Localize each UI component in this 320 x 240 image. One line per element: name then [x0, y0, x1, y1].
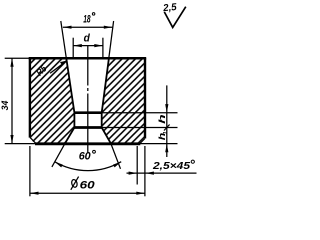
arrowhead h1 bottom (up): [165, 144, 168, 153]
dimension line 34 (left): [11, 58, 13, 143]
dimension line phi60: [30, 192, 145, 194]
extension line d left: [72, 38, 74, 58]
chamfer 2.5x45 bottom-right corner: [140, 139, 145, 144]
bottom face: [35, 142, 140, 145]
arrowhead 18deg right: [104, 26, 113, 29]
svg-text:d: d: [84, 32, 90, 44]
arrowhead d right: [94, 44, 103, 47]
roughness mark 2,5 top right: [164, 7, 186, 28]
arrowhead chamfer left (points right): [129, 172, 138, 175]
extension line 18deg right (taper wall extended): [109, 21, 114, 58]
extension line 18deg left (taper wall extended): [61, 21, 66, 58]
arrowhead 34 top: [10, 58, 13, 67]
svg-text:18: 18: [83, 13, 91, 25]
chamfer 2.5x45 bottom-left corner: [30, 138, 35, 144]
extension line d right: [102, 38, 104, 58]
extension line phi60 right: [144, 146, 146, 196]
centerline (vertical axis, dash-dot): [87, 46, 89, 154]
land bottom edge: [74, 126, 103, 129]
arrowhead R5: [60, 61, 67, 65]
extension line chamfer (left of chamfer): [136, 146, 138, 185]
arrowhead 18deg left: [63, 26, 72, 29]
top face: [29, 57, 147, 60]
svg-text:1: 1: [163, 131, 169, 134]
svg-text:34: 34: [0, 100, 11, 110]
die body outline: [30, 58, 145, 138]
arrowhead chamfer right (points left): [145, 172, 154, 175]
label h1 (rotated): [157, 131, 169, 140]
svg-text:2,5×45: 2,5×45: [152, 160, 190, 172]
extension line: land bottom, for dimensions h and h1: [102, 127, 178, 129]
dimension line chamfer 2,5x45: [127, 172, 197, 174]
svg-text:60: 60: [79, 150, 92, 162]
land top edge: [74, 111, 103, 114]
dimension line 18deg: [63, 26, 113, 28]
arrowhead 60 left: [55, 162, 63, 168]
leader R5: [50, 61, 67, 73]
label phi60: [71, 177, 79, 190]
tick at land bottom: [164, 125, 170, 131]
arrowhead phi60 left: [30, 192, 39, 195]
extension line phi60 left: [29, 146, 31, 196]
die body hatched section: [30, 58, 145, 143]
arrowhead phi60 right: [136, 192, 145, 195]
arrowhead d left: [73, 44, 82, 47]
arrowhead 60 right: [113, 162, 121, 168]
arc 60deg: [55, 162, 122, 171]
svg-text:h: h: [157, 114, 167, 124]
svg-text:2,5: 2,5: [162, 2, 178, 14]
extension line: top face extended left for 34: [5, 57, 30, 59]
dimension line d: [73, 45, 103, 47]
extension line: bottom face extended left and right: [5, 143, 178, 145]
extension line 60deg left (cone wall extended): [52, 144, 65, 167]
dimension line h / h1 (right side vertical): [166, 85, 168, 157]
extension line: land top, for dimension h: [102, 112, 178, 114]
arrowhead 34 bottom: [10, 135, 13, 144]
arrowhead h top (down): [165, 104, 168, 113]
svg-text:60: 60: [80, 180, 96, 192]
hole profile: entry cone, land, exit cone: [65, 58, 111, 143]
extension line 60deg right (cone wall extended): [111, 144, 121, 169]
